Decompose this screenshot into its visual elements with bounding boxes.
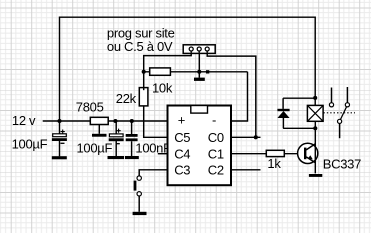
wire diode top branch — [283, 97, 315, 99]
svg-text:10k: 10k — [152, 80, 173, 95]
wire 12v main rail to IC + pin — [43, 120, 168, 122]
junction node relay top — [313, 96, 317, 100]
wire diode bottom branch to collector node — [283, 127, 315, 129]
svg-text:100µF: 100µF — [12, 137, 48, 152]
ground cap C2 — [108, 156, 125, 159]
junction node pin2 ground — [197, 70, 201, 74]
terminal square on ground net — [206, 70, 209, 73]
resistor R1 10k — [150, 68, 171, 75]
wire C4 pin stub — [158, 153, 168, 155]
wire relay top feed — [314, 98, 316, 106]
svg-text:100nF: 100nF — [135, 140, 171, 155]
wire C2 pin stub — [231, 169, 261, 171]
wire prog pin3 to C0 — [207, 53, 256, 137]
connector J1 programming header — [183, 45, 215, 54]
svg-text:22k: 22k — [116, 91, 137, 106]
svg-text:C5: C5 — [174, 130, 190, 145]
svg-text:12 v: 12 v — [12, 113, 36, 128]
ground cap C3 — [125, 156, 139, 159]
wire prog pin1 down-left to 22k/10k node — [144, 53, 192, 88]
wire C0 pin stub — [231, 136, 261, 138]
junction node collector — [313, 126, 317, 130]
svg-text:+: + — [178, 113, 185, 128]
resistor R2 22k — [139, 88, 148, 106]
junction node rail-relay feed — [57, 119, 61, 123]
junction node C0 prog out — [254, 135, 258, 139]
wire IC minus pin to ground riser — [231, 72, 248, 121]
capacitor C1 100uF electrolytic — [52, 121, 67, 156]
push button S1 — [134, 176, 142, 196]
svg-text:100µF: 100µF — [77, 141, 113, 156]
wire 22k bottom to C5 pin — [144, 106, 168, 137]
diode D1 flyback — [277, 109, 289, 118]
regulator U2 7805 — [90, 117, 108, 134]
switch S2 relay contacts SPDT — [329, 87, 349, 138]
wire push button to ground — [138, 196, 140, 212]
svg-text:-: - — [212, 113, 216, 128]
svg-text:1k: 1k — [267, 156, 281, 171]
svg-text:BC337: BC337 — [323, 157, 361, 172]
svg-text:7805: 7805 — [76, 100, 104, 115]
svg-text:C4: C4 — [174, 146, 190, 161]
svg-text:C3: C3 — [174, 163, 190, 178]
mechanical link dotted — [323, 112, 355, 114]
svg-text:C0: C0 — [208, 130, 224, 145]
wire diode anode down — [282, 118, 284, 128]
capacitor C3 100nF — [126, 121, 138, 156]
wire 12V feed from rail up and across to relay — [60, 17, 316, 121]
ground cap C1 — [52, 156, 67, 159]
resistor R3 1k — [266, 150, 284, 156]
wire C3 pin to push button — [139, 170, 167, 176]
ground transistor emitter — [309, 174, 322, 177]
svg-text:C2: C2 — [208, 163, 224, 178]
junction node 22k 10k serial-in — [142, 70, 146, 74]
junction node rail cap C2 — [113, 119, 117, 123]
svg-text:ou C.5 à 0V: ou C.5 à 0V — [107, 39, 173, 54]
junction node rail cap C3 — [130, 119, 134, 123]
wire prog pin2 ground stem — [198, 53, 200, 78]
capacitor C2 100uF electrolytic — [109, 121, 124, 156]
wire C1 pin to 1k and transistor base — [231, 153, 303, 155]
relay K1 coil — [307, 105, 323, 121]
IC U1 PICAXE — [168, 106, 232, 186]
svg-text:C1: C1 — [208, 146, 224, 161]
transistor Q1 BC337 — [298, 121, 318, 173]
ground push button — [133, 212, 147, 215]
wire 10k row to ground riser — [144, 71, 248, 73]
wire diode to cathode — [282, 98, 284, 109]
ground 7805 — [92, 134, 107, 137]
ground prog pin2 — [194, 78, 205, 81]
